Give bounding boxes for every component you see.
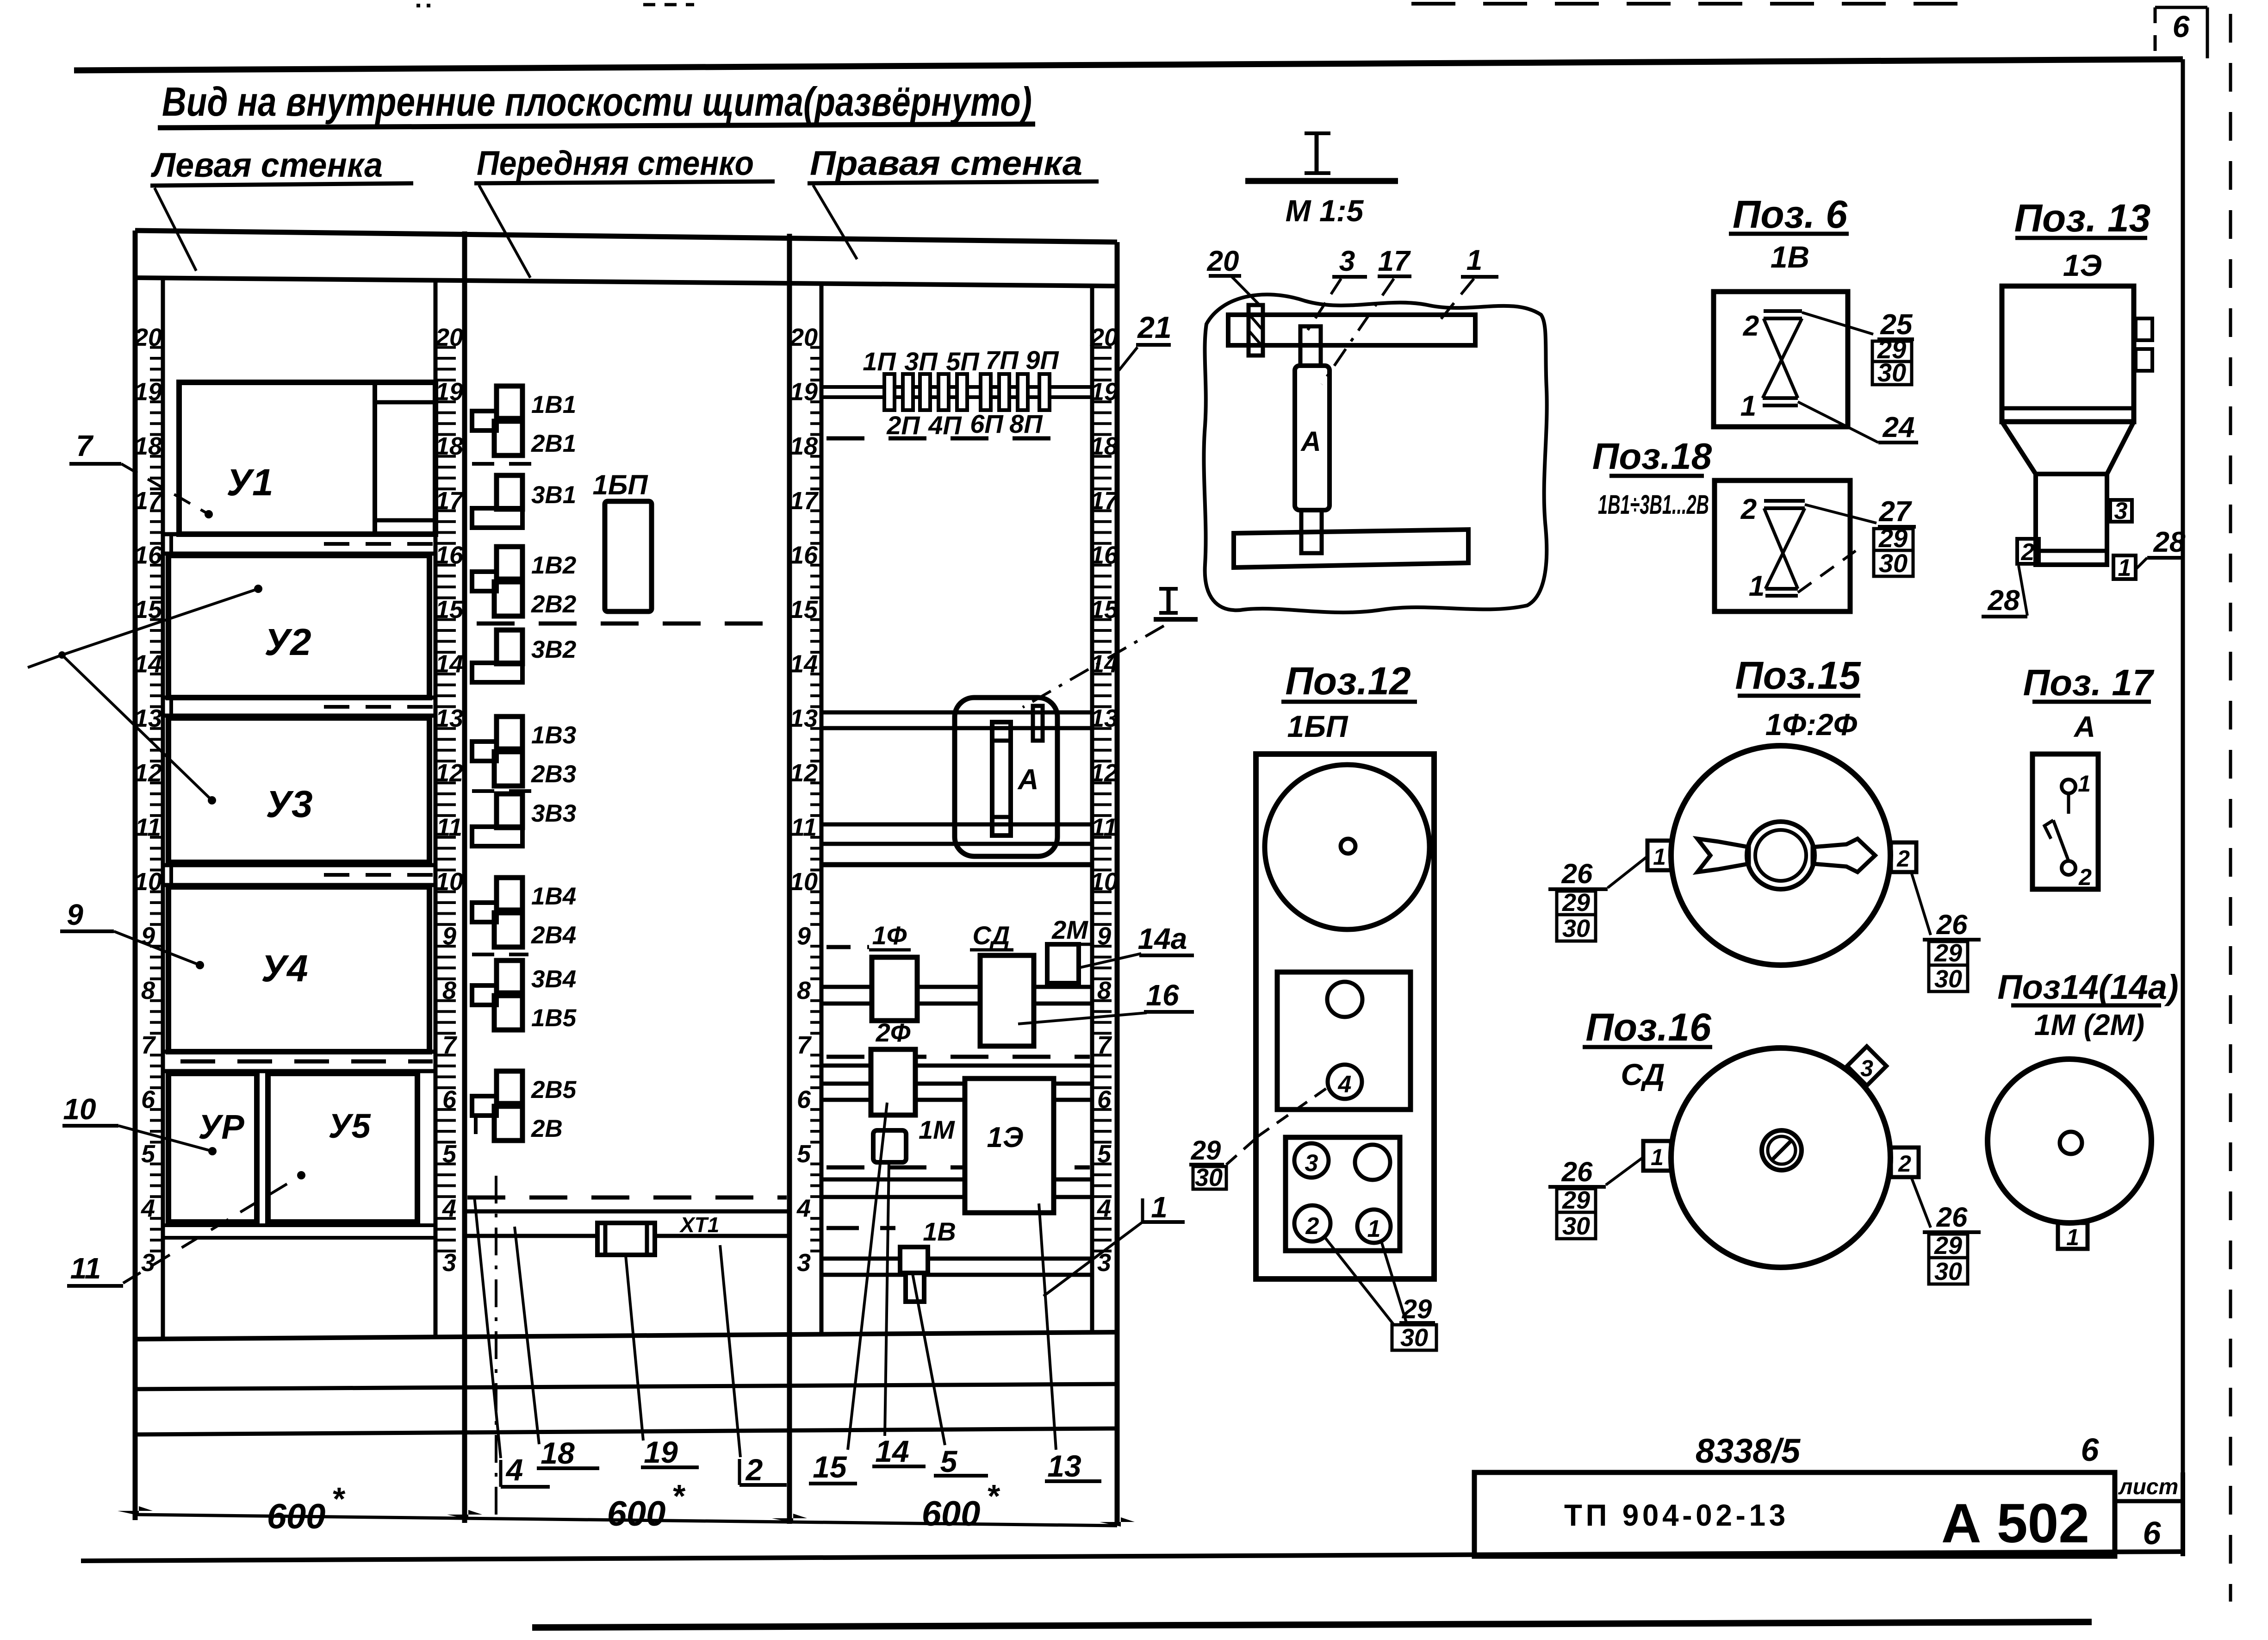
Поз.13 body bottom band (2002, 406, 2134, 411)
svg-text:УР: УР (198, 1108, 244, 1146)
dashed leader Поз.18 pin1 (1798, 551, 1856, 592)
Поз.13 taper (2002, 422, 2134, 474)
svg-text:6: 6 (2081, 1432, 2100, 1468)
Поз.12 lower box (1286, 1137, 1400, 1251)
svg-text:2П: 2П (886, 411, 920, 440)
Поз.15 right blade (1813, 839, 1875, 872)
Поз.15 left blade (1697, 839, 1749, 872)
detail I tie rod lower neck (1301, 510, 1322, 553)
title block Лист column (2113, 1472, 2117, 1556)
svg-text:1: 1 (2078, 771, 2091, 797)
Поз.16 tab 3 rotated (1847, 1047, 1887, 1086)
svg-text:1В1÷3В1...2В: 1В1÷3В1...2В (1598, 490, 1709, 520)
svg-text:26: 26 (1561, 1156, 1593, 1187)
Поз.12 middle box hole 4 (1328, 1065, 1362, 1099)
svg-text:30: 30 (1195, 1164, 1223, 1191)
detail I tie rod body А (1295, 366, 1330, 510)
svg-text:СД: СД (1621, 1057, 1665, 1091)
leader 4 (474, 1197, 501, 1458)
svg-text:1Ф:2Ф: 1Ф:2Ф (1765, 707, 1858, 742)
ruler scale 20..3 right wall right edge (1090, 324, 1119, 1277)
leader tab2 to 26 right (1911, 872, 1931, 935)
svg-text:2: 2 (2021, 539, 2035, 566)
detail I blob outline (1204, 294, 1547, 612)
svg-text:1В5: 1В5 (531, 1004, 577, 1032)
svg-text:3: 3 (797, 1249, 811, 1277)
title block frame (1474, 1472, 2115, 1556)
boxed label 30 Поз.18 (1874, 550, 1913, 576)
shelf pair level 3 right wall (821, 1257, 1092, 1261)
svg-text:1: 1 (2066, 1224, 2079, 1250)
boxed label 29 Поз.18 (1874, 529, 1913, 550)
ruler scale 20..3 right wall left edge (789, 324, 820, 1277)
assembly А inner bar (992, 722, 1011, 836)
leader Поз.6 pin1 to 24 (1798, 402, 1878, 443)
Поз.15 fan circle (1671, 746, 1890, 965)
svg-text:600: 600 (922, 1494, 981, 1534)
svg-text:2В1: 2В1 (531, 430, 576, 457)
svg-text:2В4: 2В4 (531, 922, 576, 949)
svg-text:16: 16 (1146, 979, 1179, 1012)
box 1Ф (872, 957, 917, 1021)
Поз.17 blade (2067, 793, 2070, 814)
bottom band line 1 (135, 1384, 1117, 1389)
svg-text:2: 2 (2078, 864, 2092, 890)
svg-text:9: 9 (797, 923, 811, 950)
leader dot for У2 (254, 585, 262, 593)
long dashed line level 15 front wall (477, 622, 787, 626)
box 2М (1047, 944, 1079, 983)
svg-text:8338/5: 8338/5 (1696, 1432, 1801, 1470)
dashed stub level 9 right wall (826, 945, 869, 949)
svg-text:3: 3 (2114, 498, 2128, 524)
ruler scale 20..3 left wall right edge (435, 324, 465, 1277)
Поз.16 screw center (1762, 1130, 1802, 1170)
dashed line level 7 right wall (826, 1055, 1090, 1059)
boxed label 30 Поз.6 (1872, 362, 1912, 385)
Поз.12 outer box (1256, 754, 1434, 1279)
switch 2В1 (494, 421, 522, 455)
svg-text:1В: 1В (923, 1217, 956, 1246)
Поз.15 tab 1 (1647, 841, 1671, 870)
svg-text:28: 28 (2153, 526, 2186, 558)
leader 14а to 2М (1081, 954, 1141, 967)
switch 3В4 (497, 960, 522, 993)
svg-text:1: 1 (1653, 844, 1666, 870)
switch 1В2 (497, 547, 522, 579)
box 2Ф (871, 1049, 915, 1115)
svg-text:5: 5 (940, 1444, 958, 1478)
shelf pair level 6-7 right wall (821, 1064, 1092, 1068)
svg-text:26: 26 (1561, 858, 1593, 889)
detail Поз.18 box (1715, 480, 1850, 611)
svg-text:29: 29 (1562, 889, 1590, 917)
switch 2В (494, 1106, 522, 1141)
leader Поз.16 tab2 to 26 right (1911, 1177, 1931, 1228)
leader into box toward hole 4 (1258, 1088, 1327, 1136)
detail Поз.6 box (1714, 292, 1848, 427)
svg-text:17: 17 (1378, 245, 1411, 277)
svg-text:2: 2 (1743, 310, 1759, 342)
box 1М (873, 1130, 906, 1162)
switch 1В3 (497, 717, 522, 749)
Поз.15 tab 2 (1891, 842, 1916, 872)
left wall inner right ruler line (434, 278, 438, 1336)
svg-text:19: 19 (644, 1435, 678, 1469)
svg-text:2В3: 2В3 (531, 761, 576, 788)
dashed separator above 3В3 (472, 789, 538, 793)
switch 1В4 (497, 878, 522, 910)
svg-text:Поз.12: Поз.12 (1285, 659, 1411, 703)
svg-text:3В2: 3В2 (531, 636, 576, 663)
Поз.17 switch box (2032, 754, 2098, 889)
svg-text:Правая стенка: Правая стенка (810, 144, 1082, 182)
forked leader to У2 and У3 (58, 651, 66, 659)
svg-text:29: 29 (1191, 1135, 1221, 1166)
switch 1В5 (494, 996, 522, 1030)
Поз.16 tab 1 (1643, 1141, 1671, 1171)
svg-text:3П: 3П (904, 347, 938, 376)
Поз.12 big speaker circle (1265, 765, 1429, 929)
power block 1БП (605, 501, 652, 611)
boxed label 29 Поз.6 (1872, 341, 1912, 362)
svg-text:Передняя стенко: Передняя стенко (477, 144, 754, 182)
box 1Э (965, 1079, 1054, 1213)
Поз.12 middle box (1277, 972, 1411, 1110)
leader dot for УР (208, 1147, 217, 1155)
mount tab of 1В2/2В2 (472, 572, 497, 591)
svg-text:Поз.15: Поз.15 (1735, 654, 1861, 697)
shelf line level 6 right wall (821, 1098, 1092, 1102)
dashed line level 4 front wall (467, 1196, 787, 1200)
svg-text:СД: СД (973, 921, 1010, 950)
panel top cap band across three walls (135, 231, 1117, 242)
Поз.13 lower stem (2036, 474, 2107, 565)
unit box УР (168, 1073, 257, 1222)
leader from Левая стенка to left panel (155, 188, 196, 271)
mount bracket of 3В2 (472, 663, 522, 682)
svg-text:30: 30 (1400, 1324, 1428, 1352)
svg-text:7П: 7П (985, 345, 1019, 374)
svg-text:2Ф: 2Ф (876, 1018, 911, 1047)
svg-text:6: 6 (2143, 1515, 2162, 1551)
boundary front/right wall (787, 234, 792, 1524)
svg-text:У3: У3 (266, 783, 312, 825)
svg-text:1В: 1В (1771, 240, 1809, 274)
leader 26 to Поз.16 tab1 (1606, 1157, 1643, 1185)
scan artifacts top (416, 4, 433, 7)
svg-text:2: 2 (745, 1453, 763, 1487)
switch 2В2 (494, 582, 522, 616)
svg-text:29: 29 (1934, 1232, 1962, 1260)
svg-text:1: 1 (1151, 1191, 1168, 1224)
unit box У5 (268, 1073, 417, 1222)
svg-text:2В2: 2В2 (531, 591, 576, 618)
svg-text:1: 1 (2118, 555, 2131, 581)
boundary left/front wall (462, 231, 467, 1523)
frame corner box with sheet number 6 (2154, 7, 2157, 57)
box У1 right sub-panel divider (373, 382, 377, 534)
svg-text:5П: 5П (946, 347, 980, 376)
dashed line level 18 right wall (826, 437, 1060, 441)
svg-text:2: 2 (1896, 846, 1910, 872)
svg-text:13: 13 (1047, 1449, 1081, 1483)
shelf pair level 4 right wall (821, 1178, 1092, 1182)
svg-text:29: 29 (1934, 939, 1962, 967)
svg-text:1В3: 1В3 (531, 722, 576, 749)
svg-text:27: 27 (1879, 496, 1912, 528)
svg-text:1П: 1П (863, 347, 896, 376)
Поз.14 bottom tab 1 (2058, 1223, 2088, 1249)
leader dot for У3 (208, 796, 216, 804)
svg-text:3: 3 (141, 1249, 155, 1277)
leader 15 to 2Ф (848, 1103, 887, 1450)
mount tab of 1В1/2В1 (472, 411, 497, 430)
bottom shelf line of wall interiors (135, 1332, 1117, 1339)
dashed separator above 3В4 (472, 953, 528, 956)
apparatus assembly А rounded cover (955, 698, 1057, 856)
svg-text:ХТ1: ХТ1 (679, 1213, 719, 1237)
switch 1В1 (497, 386, 522, 418)
svg-text:30: 30 (1934, 965, 1962, 993)
detail I bolt (pos 20) (1249, 305, 1263, 355)
switch 3В1 (497, 475, 522, 509)
switch 2В5 (497, 1071, 522, 1104)
svg-text:600: 600 (607, 1494, 666, 1534)
svg-text:30: 30 (1877, 358, 1906, 387)
mount tab of 1В4/2В4 (472, 903, 497, 922)
svg-text:4: 4 (505, 1453, 523, 1487)
svg-text:1Ф: 1Ф (872, 921, 907, 950)
Поз.12 hole 3 (1294, 1143, 1329, 1178)
unit box У4 (168, 887, 429, 1052)
Поз.12 speaker center hole (1341, 839, 1355, 854)
front wall rail line lower (465, 1234, 789, 1238)
scan paper edge bottom (532, 1622, 2092, 1628)
left wall inner left ruler line (161, 278, 165, 1337)
mount bracket of 3В3 (472, 827, 522, 846)
dashed line level 4-5 right wall (826, 1166, 1090, 1170)
unit box У3 (168, 718, 429, 862)
Поз.6 valve bowtie (1764, 309, 1802, 313)
svg-text:20: 20 (1207, 245, 1239, 277)
svg-text:3: 3 (1305, 1150, 1318, 1177)
leader 1 to rail (1044, 1222, 1143, 1296)
switch 2В3 (494, 752, 522, 786)
switch 3В3 (497, 794, 522, 828)
svg-text:3В1: 3В1 (531, 481, 576, 509)
svg-text:1М (2М): 1М (2М) (2034, 1008, 2144, 1041)
leader 14 to 1М (885, 1161, 889, 1436)
Поз.13 body (2002, 286, 2134, 422)
svg-text:28: 28 (1988, 585, 2020, 617)
svg-text:30: 30 (1562, 915, 1590, 942)
svg-text:2В: 2В (531, 1115, 563, 1142)
switch 3В2 (497, 630, 522, 664)
leader 26 to tab1 (1608, 856, 1647, 888)
svg-text:24: 24 (1883, 412, 1915, 443)
svg-text:8П: 8П (1009, 409, 1043, 438)
leader 2 (720, 1245, 740, 1457)
leader 18 (515, 1227, 539, 1444)
left wall lines under УР У5 (163, 1223, 435, 1227)
leader from hole 1 to 29/30 (1381, 1241, 1407, 1324)
svg-text:Поз. 17: Поз. 17 (2023, 662, 2155, 703)
svg-text:1Э: 1Э (2063, 248, 2102, 282)
svg-text:14а: 14а (1138, 922, 1187, 955)
fuses 1П-9П (884, 374, 895, 410)
svg-text:3: 3 (1860, 1055, 1873, 1081)
svg-text:*: * (671, 1478, 685, 1514)
svg-text:лист: лист (2118, 1475, 2179, 1499)
switch 2В4 (494, 913, 522, 947)
svg-text:У4: У4 (261, 948, 308, 990)
leader 11 to У5 (123, 1175, 301, 1283)
Поз.13 boxed pin 2 (2017, 539, 2039, 564)
shelf band 13 left wall (163, 696, 435, 700)
fuse row rail lines (821, 385, 1091, 389)
dashed line level 3-4 right wall (826, 1226, 895, 1230)
unit box У1 (179, 382, 435, 534)
detail I upper beam (pos 1) (1228, 315, 1475, 345)
Поз.12 hole 1 (1357, 1210, 1391, 1243)
leader from section mark I to assembly А (1023, 626, 1164, 707)
svg-text:*: * (331, 1481, 345, 1517)
svg-text:29: 29 (1562, 1186, 1590, 1214)
frame right border line (2181, 59, 2185, 1553)
svg-text:Поз14(14а): Поз14(14а) (1997, 968, 2178, 1006)
svg-text:У5: У5 (328, 1107, 371, 1145)
leader 10 to УР (118, 1126, 212, 1151)
svg-text:1Э: 1Э (987, 1122, 1023, 1154)
svg-text:26: 26 (1936, 1202, 1968, 1233)
svg-text:2: 2 (1305, 1213, 1319, 1240)
Поз.17 contact 2 (2062, 861, 2075, 875)
svg-text:30: 30 (1562, 1212, 1590, 1240)
leader from Передняя стенка to front panel (479, 185, 530, 278)
svg-text:Поз.18: Поз.18 (1592, 436, 1712, 477)
svg-text:26: 26 (1936, 909, 1968, 940)
shelf band 7 left wall dashed (163, 1050, 435, 1054)
svg-text:3В3: 3В3 (531, 800, 576, 827)
leader Поз.6 pin2 to 25 (1802, 312, 1873, 334)
shelf pair level 13 right wall (821, 711, 1092, 715)
svg-text:3: 3 (1339, 245, 1355, 277)
svg-text:У2: У2 (264, 621, 311, 663)
mount bracket of 3В1 (472, 508, 522, 528)
svg-text:А 502: А 502 (1941, 1492, 2089, 1554)
svg-text:10: 10 (63, 1092, 96, 1126)
leader 16 to СД (1018, 1013, 1147, 1024)
leader dot for У4 (196, 961, 204, 969)
leader 7 to У1 (121, 464, 209, 514)
mount tab of 2В5/2В (472, 1096, 497, 1116)
dimension line 600 x3 (135, 1515, 1117, 1526)
left wall outer left edge (133, 231, 138, 1520)
mount tab of 1В3/2В3 (472, 742, 497, 761)
svg-text:*: * (986, 1478, 1000, 1514)
shelf band 10 left wall (163, 863, 435, 867)
svg-text:Поз.16: Поз.16 (1585, 1005, 1712, 1049)
Поз.16 circle (1671, 1048, 1890, 1267)
ruler scale 20..3 left wall left edge (134, 324, 163, 1277)
Поз.17 contact 1 (2062, 779, 2075, 793)
Поз.12 hole plain (1355, 1145, 1390, 1180)
front wall rail line upper (465, 1210, 789, 1214)
svg-text:4П: 4П (928, 411, 962, 440)
Поз.15 hub ring (1747, 822, 1814, 889)
svg-text:7: 7 (797, 1031, 812, 1059)
svg-text:21: 21 (1137, 310, 1171, 344)
svg-text:М 1:5: М 1:5 (1286, 193, 1364, 228)
Поз.18 valve bowtie (1764, 499, 1805, 503)
svg-text:11: 11 (70, 1252, 101, 1285)
detail I tie rod upper neck (pos 3) (1300, 326, 1321, 366)
svg-text:30: 30 (1879, 549, 1908, 578)
mount hook below 2В tab (474, 1116, 478, 1134)
svg-text:9П: 9П (1025, 345, 1059, 374)
section mark I near right wall (1167, 589, 1171, 613)
leader Поз.18 pin2 to 27 (1805, 505, 1877, 523)
svg-text:18: 18 (541, 1436, 575, 1470)
svg-text:15: 15 (813, 1450, 847, 1484)
svg-text:7: 7 (76, 429, 94, 462)
Поз.13 boxed pin 3 (2110, 500, 2132, 522)
svg-text:1: 1 (1466, 244, 1482, 276)
leader dot for У5 (297, 1171, 305, 1179)
shelf band 16 left wall (163, 532, 435, 536)
frame top border line (74, 59, 2183, 70)
svg-text:2В5: 2В5 (531, 1076, 577, 1104)
svg-text:3: 3 (442, 1249, 456, 1277)
leader 19 to ХТ1 (626, 1255, 643, 1440)
svg-text:Левая стенка: Левая стенка (150, 146, 383, 184)
svg-text:1В4: 1В4 (531, 883, 576, 910)
box СД (980, 955, 1034, 1046)
terminal block ХТ1 (597, 1223, 655, 1255)
Поз.12 middle box top hole (1327, 982, 1362, 1017)
right wall inner right ruler line (1090, 284, 1094, 1333)
Поз.14 bell circle (1988, 1059, 2151, 1223)
svg-text:1: 1 (1740, 390, 1756, 422)
dashed leader 29/30 to Поз.12 (1226, 1140, 1255, 1165)
section view marker I with scale М1:5 (1315, 134, 1319, 172)
leader 5 to 1В (913, 1274, 945, 1445)
switch box 1В (900, 1247, 928, 1273)
right wall inner left ruler line (820, 282, 824, 1334)
svg-text:600: 600 (267, 1497, 326, 1536)
svg-text:1БП: 1БП (1287, 709, 1348, 743)
unit box У2 (168, 555, 429, 698)
svg-text:1В1: 1В1 (531, 391, 576, 418)
svg-text:Поз. 6: Поз. 6 (1733, 193, 1848, 236)
svg-text:ТП 904-02-13: ТП 904-02-13 (1564, 1498, 1789, 1532)
svg-text:1: 1 (1367, 1216, 1381, 1242)
Поз.12 hole 2 (1294, 1205, 1330, 1241)
svg-text:4: 4 (1338, 1071, 1352, 1098)
leader from hole 2 to 29/30 (1324, 1237, 1394, 1325)
svg-text:4: 4 (796, 1195, 811, 1222)
leader 9 to У4 (114, 931, 200, 965)
svg-text:Вид на внутренние плоскости: Вид на внутренние плоскости щита(развёрн… (162, 79, 1032, 125)
shelf pair level 11 right wall (821, 823, 1092, 827)
leader from Правая стенка to right panel (813, 185, 857, 259)
svg-text:9: 9 (67, 898, 83, 931)
assembly А pin (1033, 706, 1043, 741)
mount tab of 3В4/1В5 (472, 985, 497, 1005)
svg-text:А: А (2073, 710, 2095, 743)
hinge axis dash-dot line front wall (495, 1176, 497, 1523)
